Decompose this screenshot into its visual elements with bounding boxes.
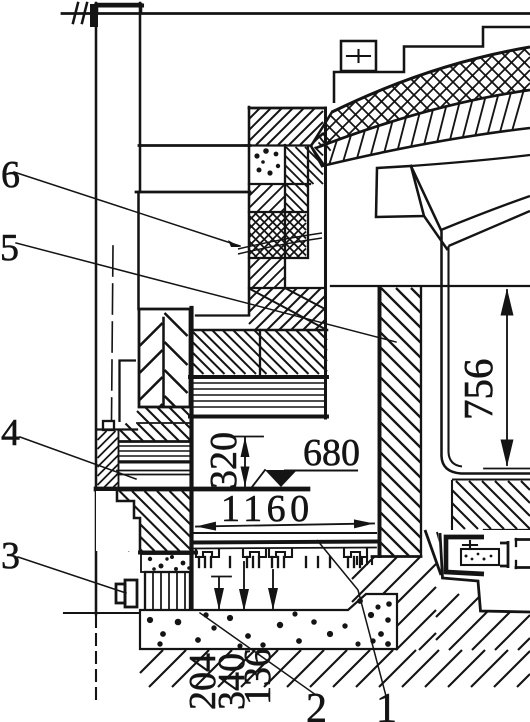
column step edge: [98, 361, 137, 430]
svg-text:3: 3: [1, 535, 20, 577]
leader line 6: [14, 172, 240, 247]
arch springing fan lines: [311, 112, 332, 167]
skewback diagonal joint lower: [424, 216, 447, 249]
brick course fine striped: [119, 442, 190, 463]
pier vertically striped block: [145, 572, 190, 613]
svg-text:4: 4: [1, 412, 20, 454]
leader line 5: [16, 243, 396, 342]
anchor bolt (item 3): [116, 580, 137, 607]
svg-text:6: 6: [1, 154, 20, 196]
skewback brick: [376, 166, 424, 217]
pier cap line: [140, 551, 196, 555]
svg-text:1: 1: [376, 686, 397, 722]
chamber lining inner line: [449, 246, 530, 480]
leader line 1: [317, 540, 386, 696]
arch brick band radial joints: [329, 91, 523, 164]
steel column hidden line below ground: [95, 616, 97, 706]
svg-text:680: 680: [303, 432, 360, 474]
leader line 2: [200, 613, 316, 695]
bracket top plate: [139, 144, 250, 147]
inner roof arc upper: [441, 196, 530, 230]
label 4: [1, 412, 20, 454]
soil hatch under and beside footing: [140, 556, 530, 687]
label 1: [376, 686, 397, 722]
dimension 136 text: [237, 648, 279, 705]
arch outer band cross-hatch: [300, 40, 530, 150]
dimension 320 line with arrows: [234, 437, 263, 487]
masonry fine striped band: [190, 383, 327, 417]
chamber lining outer line: [442, 231, 530, 474]
dimension 204 text: [182, 653, 224, 710]
top structural datum line: [62, 12, 530, 15]
chamber top line: [331, 285, 530, 287]
dimension 756 text: [455, 359, 501, 421]
label 6: [1, 154, 20, 196]
dimension 1160 line with arrows: [196, 519, 374, 530]
ground level line: [64, 612, 141, 614]
runner channel white void: [438, 530, 530, 611]
pier concrete band with stipple: [141, 554, 192, 572]
furnace shell plate (thick): [189, 308, 193, 615]
dimension 756 line with arrows: [484, 289, 530, 469]
brick course hatched b: [119, 424, 190, 442]
svg-text:5: 5: [0, 227, 19, 269]
label 3: [1, 535, 20, 577]
dimension 136 line: [268, 570, 278, 610]
expansion box with plus mark: [341, 41, 376, 71]
arch second arc: [316, 90, 530, 148]
arch third arc: [322, 128, 530, 166]
arch outer arc: [332, 47, 530, 112]
furnace inner wall hatched (item 5 target): [357, 288, 421, 564]
brick course plain with joint lines: [117, 471, 190, 475]
steel column right flange: [139, 3, 142, 192]
dimension 320 text: [203, 432, 245, 489]
shell plate upper segment: [137, 192, 140, 309]
castellated bottom plate: [192, 542, 376, 568]
leader line 3: [18, 557, 126, 593]
hearth band hatched: [452, 481, 530, 530]
inner roof arc lower: [449, 211, 530, 246]
dimension 340 text: [211, 653, 253, 710]
brick column of furnace wall: [193, 107, 327, 418]
bracket bottom plate: [136, 191, 250, 194]
arch fourth arc: [411, 155, 530, 166]
anchor rod foot bracket: [103, 421, 114, 430]
steel column left flange: [95, 3, 98, 614]
steel column cap plate: [96, 4, 142, 13]
dimension 340 line: [239, 562, 249, 611]
skewback diagonal joint upper: [411, 166, 441, 230]
svg-text:2: 2: [306, 686, 327, 722]
leader line 4: [20, 437, 136, 479]
masonry course top thick line: [190, 375, 327, 379]
svg-text:320: 320: [203, 432, 245, 489]
taper brick block with herringbone hatch: [139, 309, 190, 407]
staircase profile of roof seating: [334, 27, 530, 103]
break mark ticks at left end: [73, 3, 98, 27]
runner channel C-section: [440, 533, 530, 612]
svg-text:756: 756: [455, 359, 501, 421]
dimension 204 line: [212, 577, 231, 611]
anchor rod: [112, 246, 114, 420]
slag channel step edges: [425, 530, 450, 576]
dimension 680 text: [303, 432, 360, 474]
level mark with dimension 680: [252, 470, 357, 487]
runner channel right bracket: [500, 539, 530, 568]
concrete footing slab (item 2): [140, 594, 397, 649]
dimension 1160 text: [221, 488, 314, 530]
svg-text:1160: 1160: [221, 488, 314, 530]
column web hatched strip: [98, 431, 119, 488]
foundation pier corbel (hatched): [96, 491, 192, 551]
pit floor level line: [192, 532, 376, 534]
bottom plate thick line: [96, 487, 308, 492]
svg-text:136: 136: [237, 648, 279, 705]
brick course hatched a: [137, 407, 190, 423]
label 2: [306, 686, 327, 722]
slip joint packing lines: [238, 233, 322, 254]
label 5: [0, 227, 19, 269]
runner channel concrete block: [461, 541, 499, 565]
